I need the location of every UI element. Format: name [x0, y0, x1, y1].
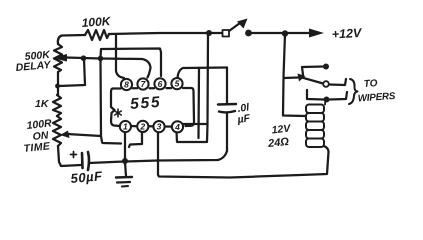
svg-text:WIPERS: WIPERS [357, 91, 396, 105]
svg-text:50µF: 50µF [70, 168, 104, 186]
svg-text:5: 5 [175, 79, 180, 89]
svg-text:8: 8 [124, 80, 129, 90]
svg-text:3: 3 [157, 122, 162, 132]
svg-text:µF: µF [236, 112, 252, 126]
svg-text:DELAY: DELAY [15, 59, 52, 74]
svg-text:100K: 100K [81, 14, 112, 30]
svg-text:24Ω: 24Ω [267, 136, 290, 150]
svg-text:12V: 12V [271, 122, 292, 136]
svg-text:TO: TO [363, 78, 378, 90]
svg-text:TIME: TIME [23, 140, 51, 155]
svg-text:+12V: +12V [331, 26, 363, 42]
svg-text:4: 4 [174, 122, 180, 132]
svg-text:2: 2 [139, 122, 145, 132]
svg-text:6: 6 [158, 79, 163, 89]
svg-text:1K: 1K [35, 98, 50, 110]
svg-text:555: 555 [130, 94, 162, 113]
svg-text:1: 1 [123, 122, 128, 132]
